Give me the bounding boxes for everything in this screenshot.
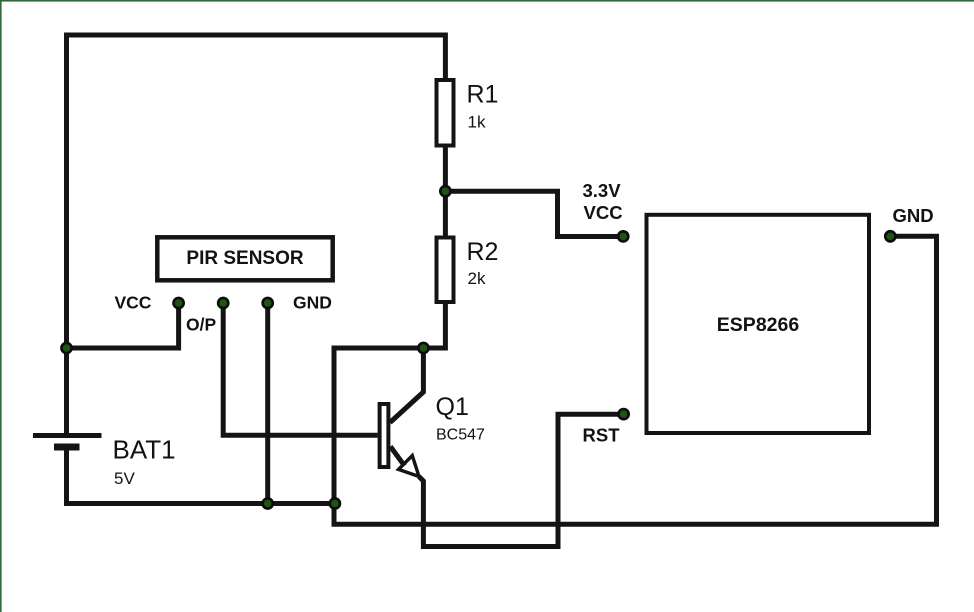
resistor R1 [437,80,454,146]
wire battery+ top rail to R1 top [67,35,446,434]
wire VCC tap from R1/R2 junction to 3.3V VCC pin [445,191,620,236]
node left rail junction [61,343,71,353]
node bottom rail / ground riser junction [330,498,340,508]
svg-text:GND: GND [893,205,934,226]
svg-text:3.3V: 3.3V [583,180,622,201]
wire PIR O/P pin to transistor base [223,305,377,435]
svg-text:BAT1: BAT1 [113,435,176,465]
svg-text:R1: R1 [467,81,499,109]
node GND terminal [885,231,895,241]
wire emitter diagonal from transistor bar [390,447,404,466]
wire PIR GND pin to bottom rail [265,305,270,504]
battery BAT1 plate short [54,444,80,451]
page border top [0,0,974,2]
resistor R2 [437,238,454,303]
node PIR O/P pin [218,298,228,308]
svg-text:BC547: BC547 [436,427,485,444]
node RST terminal [619,409,629,419]
svg-text:2k: 2k [468,269,486,288]
transistor Q1 emitter arrowhead [399,456,420,477]
svg-text:VCC: VCC [115,293,152,313]
PIR SENSOR box [157,237,332,280]
wire PIR VCC pin to left rail [64,305,179,348]
svg-text:RST: RST [583,425,621,446]
node PIR VCC pin [174,298,184,308]
wire emitter loop to RST pin [419,414,621,546]
svg-text:GND: GND [293,293,332,313]
node R1/R2 junction [440,186,450,196]
wire battery- to bottom rail junction [67,449,335,504]
ESP8266 box [647,215,870,433]
svg-text:VCC: VCC [584,202,623,223]
svg-text:ESP8266: ESP8266 [717,314,800,336]
node collector junction [418,343,428,353]
svg-text:1k: 1k [468,113,486,132]
node bottom rail / PIR GND junction [263,498,273,508]
page border left [0,0,2,612]
node 3.3V VCC terminal [618,231,628,241]
svg-text:R2: R2 [467,238,499,266]
svg-text:O/P: O/P [186,315,216,335]
transistor Q1 bar [380,404,389,467]
svg-text:5V: 5V [114,469,135,488]
svg-text:PIR SENSOR: PIR SENSOR [186,248,303,269]
wire R1 bottom to R2 top [443,147,448,236]
node PIR GND pin [263,298,273,308]
wire R2 bottom to collector node and ground loop to GND pin [334,236,937,524]
svg-text:Q1: Q1 [436,393,469,421]
wire collector from node down to transistor [390,348,423,423]
battery BAT1 plate long [33,433,102,438]
